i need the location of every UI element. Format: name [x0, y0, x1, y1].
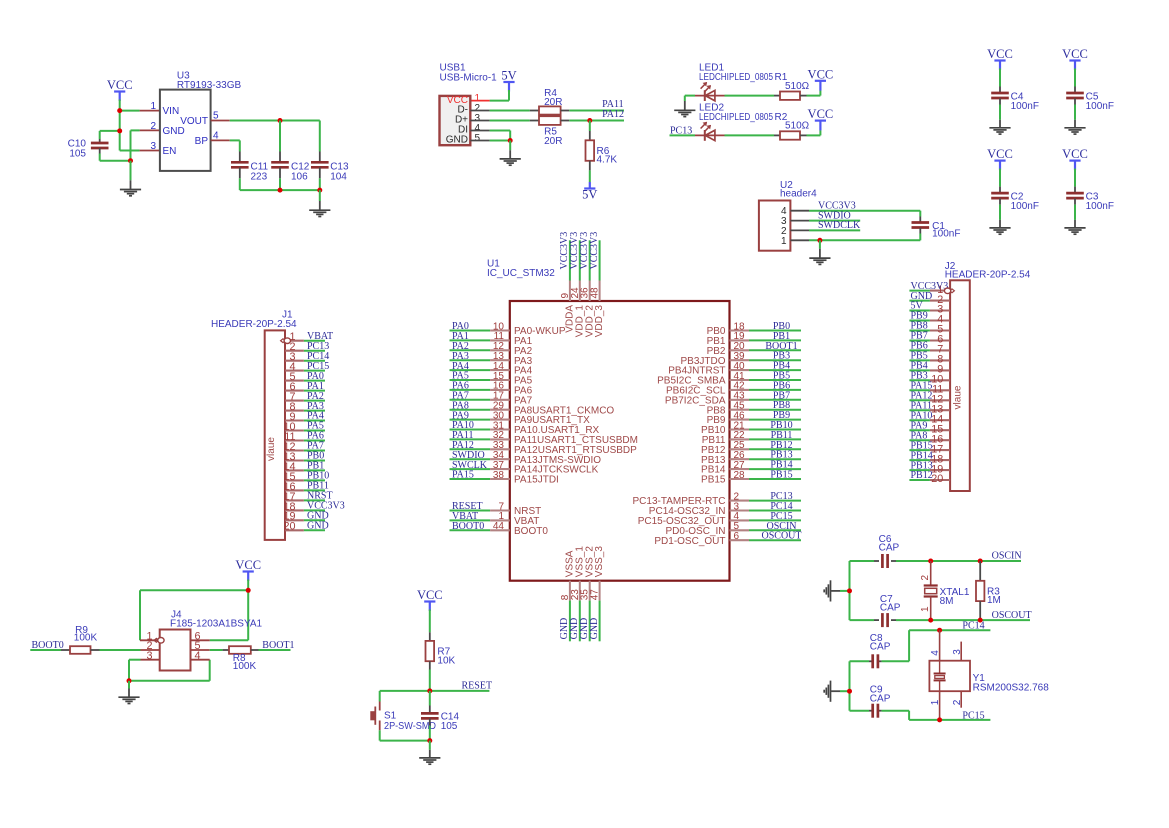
junction 32k caps left [847, 689, 852, 694]
value CAP (C6) [879, 543, 900, 554]
svg-text:VCC: VCC [417, 588, 443, 602]
U3 pin name GND [163, 126, 185, 137]
label C11 [251, 162, 269, 173]
J2 value text [952, 385, 963, 409]
U1 left pin 12 PA2 (net PA2) [450, 341, 533, 357]
label R1 [775, 72, 788, 83]
svg-text:28: 28 [734, 470, 746, 481]
U1 right pin 25 PB12 (net PB12) [701, 440, 801, 456]
U1 bottom pin 35 VSS_2 (net GND) [579, 546, 595, 642]
svg-text:PB15: PB15 [701, 475, 726, 486]
wire junction to U3 VIN pin 1 [120, 110, 160, 112]
junction C13/bus [317, 188, 322, 193]
J2 pin 1 marker [944, 288, 954, 294]
U1 right pin 45 PB8 (net PB8) [707, 400, 801, 416]
svg-text:10K: 10K [437, 655, 455, 666]
svg-text:PA15: PA15 [452, 470, 474, 481]
svg-text:100nF: 100nF [932, 229, 960, 240]
resistor R1 [780, 92, 800, 100]
wire VCC to C5 [1074, 69, 1076, 93]
junction PC14/Y1 pin 4 [937, 628, 942, 633]
J1 pin 19 (net GND) [283, 511, 328, 523]
J1 pin 15 (net PB10) [283, 471, 329, 483]
svg-text:CAP: CAP [880, 603, 901, 614]
svg-text:1M: 1M [987, 595, 1001, 606]
svg-text:4: 4 [930, 650, 941, 656]
svg-text:1: 1 [781, 236, 787, 247]
wire LED1 cathode to ground corner [685, 96, 695, 110]
value 100nF (C4) [1011, 101, 1039, 112]
label XTAL1 [940, 587, 970, 598]
capacitor C14 [421, 713, 439, 718]
ground (U3) [120, 190, 141, 196]
J2 pin 16 (net PA8) [909, 430, 950, 445]
USB1 pin name DI [458, 125, 468, 136]
power flag VCC (LED1) [808, 67, 834, 81]
svg-text:PB12: PB12 [911, 470, 933, 481]
svg-text:HEADER-20P-2.54: HEADER-20P-2.54 [211, 319, 297, 330]
J2 pin 2 (net GND) [909, 291, 950, 306]
J1 pin 5 (net PA0) [285, 371, 325, 383]
value 100nF (C1) [932, 229, 960, 240]
LED LED1 [695, 83, 725, 102]
U1 left pin 33 PA12USART1_RTSUSBDP (net PA12) [450, 440, 638, 456]
crystal XTAL1 [924, 561, 938, 620]
net label PC15 [962, 710, 984, 721]
svg-text:RT9193-33GB: RT9193-33GB [177, 80, 242, 91]
connector J1 body [265, 330, 285, 540]
wire R6 to 5V flag [589, 161, 591, 182]
junction USB GND [508, 138, 513, 143]
label USB1 [440, 63, 467, 74]
J1 pin 4 (net PC15) [285, 361, 329, 373]
svg-text:3: 3 [150, 141, 156, 152]
J2 pin 10 (net PB3) [909, 371, 950, 386]
U2 pin number 1 [781, 236, 787, 247]
label C4 [1011, 92, 1024, 103]
wire LED1 to R1 [725, 95, 781, 97]
wire to ground (reset) [429, 741, 431, 758]
J1 pin 11 (net PA6) [284, 431, 325, 443]
U3 pin name VIN [163, 106, 180, 117]
label R5 [544, 127, 557, 138]
power flag 5V (R6 pullup) [582, 182, 597, 202]
U1 right pin 20 PB2 (net BOOT1) [707, 341, 801, 357]
U1 left pin 31 PA10.USART1_RX (net PA10) [450, 420, 600, 436]
J2 pin 9 (net PB4) [909, 361, 950, 376]
value USB-Micro-1 [440, 73, 498, 84]
ground (C3) [1064, 228, 1085, 234]
power flag VCC (C4) [987, 47, 1013, 70]
label J4 [171, 610, 182, 621]
J2 pin 3 (net 5V) [909, 301, 950, 316]
U3 pin name VOUT [180, 116, 208, 127]
svg-text:LEDCHIPLED_0805: LEDCHIPLED_0805 [699, 112, 773, 123]
junction U2 pin1/ground [817, 238, 822, 243]
J2 pin 18 (net PB14) [909, 450, 950, 465]
wire R7 to RESET junction [429, 661, 431, 691]
USB1 pin name GND [446, 135, 468, 146]
svg-text:510Ω: 510Ω [785, 121, 810, 132]
junction OSCIN/XTAL1 [928, 559, 933, 564]
U1 left pin 37 PA14JTCKSWCLK (net SWCLK) [450, 460, 599, 476]
wire left vertical (8M) [849, 561, 851, 620]
Y1 pin 4 lead [939, 630, 941, 661]
wire C8 row [850, 630, 910, 661]
J1 pin 1 (net VBAT) [285, 331, 333, 343]
label C3 [1086, 192, 1099, 203]
svg-text:VIN: VIN [163, 106, 180, 117]
XTAL1 pin number 1 [920, 606, 931, 612]
svg-text:OSCOUT: OSCOUT [992, 610, 1032, 621]
U3 pin name BP [195, 136, 209, 147]
USB1 pin number 3 [475, 113, 481, 124]
USB1 pin number 5 [475, 133, 481, 144]
wire VCC vertical to EN branch [119, 111, 121, 131]
svg-text:47: 47 [590, 589, 601, 601]
USB1 pin number 4 [475, 123, 481, 134]
J1 pin 7 (net PA2) [285, 391, 325, 403]
label LED2 [699, 102, 724, 113]
U1 right pin 43 PB7I2C_SDA (net PB7) [665, 390, 801, 406]
value 1M (R3) [987, 595, 1001, 606]
net label SWDIO [818, 210, 851, 221]
svg-text:CAP: CAP [870, 693, 891, 704]
J2 pin 12 (net PA12) [909, 391, 950, 406]
svg-text:BOOT1: BOOT1 [262, 640, 294, 651]
wire U2 pin4 net VCC3V3 to C1 [809, 210, 920, 212]
wire C14 bottom [429, 718, 431, 740]
power flag VCC (C3) [1062, 147, 1088, 170]
wire C12 bottom [279, 167, 281, 190]
label R9 [75, 625, 88, 636]
J2 pin 20 (net PB12) [909, 470, 950, 485]
svg-text:38: 38 [493, 470, 505, 481]
capacitor C11 [231, 162, 249, 167]
J2 pin 17 (net PB15) [909, 440, 950, 455]
svg-text:2: 2 [952, 699, 963, 705]
label C7 [880, 594, 893, 605]
label C6 [879, 534, 892, 545]
ground (J4) [118, 697, 139, 703]
value LEDCHIPLED_0805 (LED2) [699, 112, 773, 123]
wire junction to C14 [429, 691, 431, 713]
svg-text:header4: header4 [780, 189, 817, 200]
wire C1 bottom [919, 228, 921, 241]
svg-text:1: 1 [150, 101, 156, 112]
label C9 [870, 685, 883, 696]
U3 pin number 3 [150, 141, 156, 152]
svg-text:BOOT0: BOOT0 [514, 526, 548, 537]
wire VCC to J4 junction [247, 580, 249, 591]
ground (C2) [989, 228, 1010, 234]
svg-text:223: 223 [251, 171, 268, 182]
J1 pin 18 (net VCC3V3) [283, 501, 344, 513]
wire net PC14 [909, 629, 990, 631]
U1 bottom pin 23 VSS_1 (net GND) [569, 546, 585, 642]
svg-text:HEADER-20P-2.54: HEADER-20P-2.54 [945, 270, 1031, 281]
value HEADER-20P-2.54 (J2) [945, 270, 1031, 281]
wire bus to ground [319, 190, 321, 210]
U1 left pin 7 NRST (net RESET) [450, 501, 542, 517]
value header4 [780, 189, 817, 200]
svg-text:VCC: VCC [1062, 147, 1088, 161]
J1 pin 9 (net PA4) [285, 411, 325, 423]
svg-text:20R: 20R [544, 97, 562, 108]
junction VOUT/C12 [278, 118, 283, 123]
J4 pin number 4 [195, 650, 201, 662]
svg-text:100nF: 100nF [1011, 101, 1039, 112]
J1 pin 20 (net GND) [283, 521, 328, 533]
junction PC15/Y1 pin 1 [937, 717, 942, 722]
resistor R6 [586, 140, 595, 161]
J1 pin 2 (net PC13) [285, 341, 329, 353]
ground (VOUT caps) [309, 210, 330, 216]
J4 pin number 3 [146, 650, 152, 662]
U1 right pin 3 PC14-OSC32_IN (net PC14) [649, 501, 801, 517]
J1 pin 8 (net PA3) [285, 401, 325, 413]
svg-text:PB15: PB15 [770, 470, 792, 481]
J2 pin 11 (net PA15) [909, 381, 950, 396]
U3 pin number 5 [213, 110, 219, 121]
J1 pin 10 (net PA5) [283, 421, 325, 433]
capacitor C5 [1066, 93, 1084, 98]
label C8 [870, 633, 883, 644]
junction VCC/VIN [117, 108, 122, 113]
wire junction to ground [128, 681, 130, 697]
J2 pin 15 (net PA9) [909, 420, 950, 435]
wire C4 to ground [999, 98, 1001, 127]
label R4 [544, 88, 557, 99]
crystal Y1 body [929, 661, 970, 692]
svg-text:GND: GND [589, 618, 600, 640]
svg-text:4.7K: 4.7K [597, 155, 618, 166]
svg-text:VCC: VCC [808, 67, 834, 81]
voltage regulator U3 body [160, 90, 211, 171]
wire C11 bottom [239, 167, 241, 190]
U1 left pin 34 PA13JTMS-SWDIO (net SWDIO) [450, 450, 602, 466]
wire USB D+ to R5 [470, 120, 539, 122]
junction C14/S1 ground [427, 738, 432, 743]
svg-text:GND: GND [446, 135, 468, 146]
U1 bottom pin 47 VSS_3 (net GND) [589, 546, 605, 642]
value 510&#937; (R1) [785, 81, 810, 92]
wire OSCOUT bottom rail [850, 619, 1031, 621]
wire C13 top [319, 121, 321, 163]
U2 pin 1 stub [790, 239, 809, 241]
value 104 [330, 171, 347, 182]
ground (reset) [419, 758, 440, 764]
label C13 [330, 162, 349, 173]
svg-text:20R: 20R [544, 136, 562, 147]
svg-text:GND: GND [163, 126, 185, 137]
svg-text:BP: BP [195, 136, 209, 147]
label C14 [441, 711, 460, 722]
U1 right pin 5 PD0-OSC_IN (net OSCIN) [665, 521, 801, 537]
U1 left pin 11 PA1 (net PA1) [450, 331, 533, 347]
svg-text:3: 3 [952, 649, 963, 655]
wire U2 pin1 to C1 bottom [809, 239, 920, 241]
svg-text:105: 105 [69, 149, 86, 160]
svg-text:VDD_3: VDD_3 [594, 305, 605, 338]
U1 top pin 24 VDD_1 (net VCC3V3) [569, 232, 585, 338]
J2 pin 13 (net PA11) [909, 400, 950, 415]
wire C3 to ground [1074, 198, 1076, 227]
junction OSCOUT/XTAL1 [928, 618, 933, 623]
J2 pin 7 (net PB6) [909, 341, 950, 356]
svg-text:5V: 5V [582, 188, 597, 202]
junction OSCIN/R3 [978, 559, 983, 564]
U1 right pin 6 PD1-OSC_OUT (net OSCOUT) [654, 531, 801, 547]
wire to U3 EN pin 3 [120, 150, 160, 152]
wire C9 row [850, 711, 910, 720]
ground (USB) [500, 159, 521, 165]
U1 left pin 38 PA15JTDI (net PA15) [450, 470, 559, 486]
svg-text:VCC: VCC [107, 78, 133, 92]
svg-text:PC15: PC15 [962, 710, 984, 721]
wire LED2 to R2 [725, 134, 781, 136]
U1 right pin 27 PB14 (net PB14) [701, 460, 801, 476]
junction VCC/C10/EN [117, 128, 122, 133]
junction crystal caps left [847, 588, 852, 593]
wire VCC down to EN row [119, 131, 121, 151]
net label BOOT0 [32, 640, 64, 651]
resistor R5 [539, 116, 561, 125]
ground (C5) [1064, 128, 1085, 134]
wire J4 pin 5 to R8 [191, 649, 230, 651]
wire VCC to C3 [1074, 169, 1076, 193]
label C2 [1011, 192, 1024, 203]
USB connector USB1 body [440, 96, 471, 145]
wire BOOT0 to R9 [30, 649, 70, 651]
svg-text:VCC: VCC [987, 47, 1013, 61]
svg-text:106: 106 [291, 171, 308, 182]
value 2P-SW-SMD [384, 721, 436, 732]
U1 right pin 4 PC15-OSC32_OUT (net PC15) [638, 511, 801, 527]
capacitor C13 [311, 162, 329, 167]
svg-text:VCC: VCC [987, 147, 1013, 161]
U1 left pin 13 PA3 (net PA3) [450, 351, 533, 367]
svg-text:GND: GND [307, 521, 329, 532]
U3 pin number 2 [150, 121, 156, 132]
svg-text:VCC3V3: VCC3V3 [589, 232, 600, 270]
wire R2 to VCC [800, 121, 820, 136]
connector J4 body [160, 630, 191, 671]
power flag VCC (J4) [235, 558, 261, 581]
svg-text:20: 20 [931, 473, 943, 485]
U3 pin number 1 [150, 101, 156, 112]
junction VCC/J4 pin1/pin6 [246, 588, 251, 593]
J2 pin 1 (net VCC3V3) [909, 281, 950, 296]
U1 left pin 17 PA7 (net PA7) [450, 391, 533, 407]
label U2 [780, 180, 793, 191]
J1 pin 13 (net PB0) [283, 451, 325, 463]
U2 pin number 2 [781, 226, 787, 237]
value 100nF (C5) [1086, 101, 1114, 112]
net label RESET [462, 681, 493, 692]
svg-text:USB-Micro-1: USB-Micro-1 [440, 73, 498, 84]
svg-text:8M: 8M [940, 596, 954, 607]
wire net SWDIO [809, 220, 860, 222]
J1 pin 1 marker [281, 338, 291, 344]
Y1 pin number 3 [952, 649, 963, 655]
wire USB D- to R4 [470, 110, 539, 112]
label U1 [487, 259, 500, 270]
wire USB GND pin 5 [470, 140, 510, 142]
U1 right pin 42 PB6I2C_SCL (net PB6) [666, 380, 801, 396]
wire left vertical (32k) [849, 661, 851, 710]
wire junction down to R6 [589, 121, 591, 141]
wire U3 VOUT pin 5 to caps bus [211, 120, 320, 122]
svg-text:100nF: 100nF [1086, 201, 1114, 212]
wire C13 bottom [319, 167, 321, 190]
U1 right pin 39 PB3JTDO (net PB3) [680, 351, 801, 367]
value 510&#937; (R2) [785, 121, 810, 132]
value 10K (R7) [437, 655, 455, 666]
net label OSCIN [992, 551, 1022, 562]
value 100nF (C3) [1086, 201, 1114, 212]
label R7 [437, 646, 450, 657]
wire RESET net [380, 690, 490, 692]
wire junction left and down to J4 pin 1 [140, 590, 248, 640]
svg-text:CAP: CAP [879, 543, 900, 554]
resistor R8 [229, 646, 251, 654]
label C10 [68, 139, 87, 150]
Y1 pin number 4 [930, 650, 941, 656]
wire 5V to USB VCC pin 1 [470, 90, 509, 101]
svg-text:RSM200S32.768: RSM200S32.768 [973, 683, 1050, 694]
wire VCC to C4 [999, 69, 1001, 93]
U1 left pin 1 VBAT (net VBAT) [450, 511, 540, 527]
ground (32k crystal) [824, 681, 830, 702]
svg-text:PC14: PC14 [962, 621, 984, 632]
U1 right pin 22 PB11 (net PB11) [702, 430, 801, 446]
USB1 pin number 2 [475, 103, 481, 114]
wire OSCIN top rail [850, 560, 1022, 562]
wire net PC15 [909, 719, 990, 721]
wire to ground [130, 161, 132, 189]
label R3 [987, 587, 1000, 598]
power flag VCC (C2) [987, 147, 1013, 170]
value 100nF (C2) [1011, 201, 1039, 212]
wire R8 to net BOOT1 [251, 649, 291, 651]
Y1 pin 1 lead [939, 691, 941, 720]
power flag VCC (LED2) [808, 107, 834, 121]
capacitor C2 [991, 193, 1009, 198]
U1 left pin 44 BOOT0 (net BOOT0) [450, 521, 549, 537]
power flag VCC (regulator input) [107, 78, 133, 101]
U1 left pin 32 PA11USART1_CTSUSBDM (net PA11) [450, 430, 638, 446]
U1 left pin 14 PA4 (net PA4) [450, 361, 533, 377]
resistor R3 [976, 561, 984, 620]
capacitor C6 [882, 554, 887, 568]
junction PA12/R6 [587, 118, 592, 123]
svg-text:F185-1203A1BSYA1: F185-1203A1BSYA1 [170, 619, 263, 630]
svg-text:VSS_3: VSS_3 [594, 546, 605, 578]
wire PC13 to LED2 [670, 134, 696, 136]
wire R1 to VCC [800, 81, 820, 96]
IC U1 body [510, 301, 730, 581]
USB1 pin number 1 [475, 93, 481, 104]
svg-text:vlaue: vlaue [952, 385, 963, 409]
resistor R2 [780, 131, 800, 139]
svg-text:20: 20 [283, 521, 295, 533]
capacitor C9 [873, 704, 878, 718]
XTAL1 pin number 2 [920, 575, 931, 581]
net label PC13 (LED2 input) [670, 126, 692, 137]
svg-text:2P-SW-SMD: 2P-SW-SMD [384, 721, 436, 732]
net label BOOT1 [262, 640, 294, 651]
